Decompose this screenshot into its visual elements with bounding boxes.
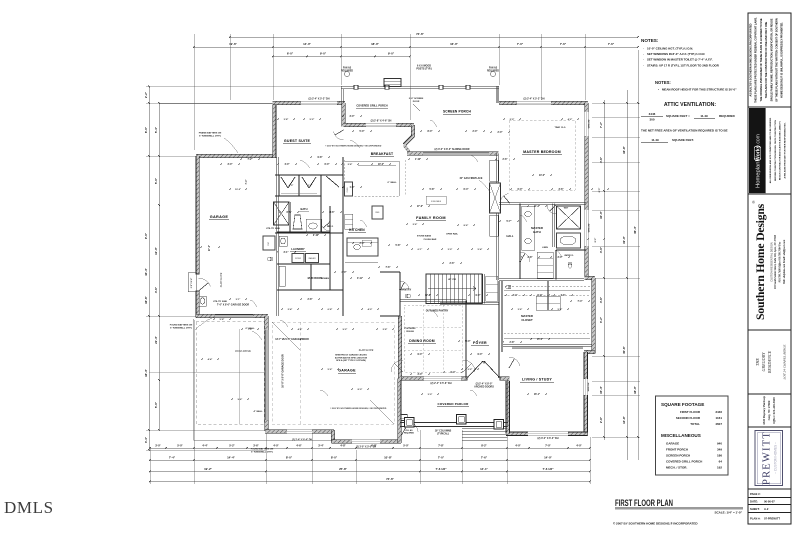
laundry	[277, 230, 330, 232]
svg-text:16'-8": 16'-8"	[622, 145, 626, 153]
svg-text:7'-4": 7'-4"	[245, 180, 248, 185]
roof above dashes	[196, 321, 264, 424]
svg-text:DMLS: DMLS	[4, 498, 54, 517]
svg-text:7'-2": 7'-2"	[248, 159, 253, 161]
wall: garage2 south lower + window	[332, 440, 402, 443]
leader arcs	[300, 160, 310, 168]
dimension lines left	[148, 87, 150, 451]
svg-text:7'-0": 7'-0"	[438, 455, 445, 459]
screen porch edge + posts	[341, 85, 499, 87]
svg-text:4'-2": 4'-2"	[568, 118, 573, 121]
svg-text:40" GAS FIREPLACE: 40" GAS FIREPLACE	[460, 177, 483, 180]
svg-text:REQUIRED: REQUIRED	[341, 70, 353, 72]
svg-text:3'-6": 3'-6"	[559, 189, 564, 191]
svg-text:2'-2": 2'-2"	[144, 91, 148, 98]
svg-text:HALL: HALL	[507, 234, 514, 238]
wall: grill porch south + window	[343, 123, 414, 126]
svg-text:KITCHEN: KITCHEN	[349, 228, 365, 232]
svg-text:COVERED GRILL PORCH: COVERED GRILL PORCH	[666, 460, 702, 464]
builders note rotated	[769, 117, 786, 183]
toilet compartment + linen	[554, 250, 556, 280]
svg-text:4'-0": 4'-0"	[576, 443, 582, 447]
svg-text:FAN AS: FAN AS	[343, 67, 352, 70]
svg-text:19'-6": 19'-6"	[229, 42, 237, 46]
svg-text:THE ORIGINAL PURCHASER OF THES: THE ORIGINAL PURCHASER OF THESE PLANS IS…	[760, 18, 763, 101]
svg-text:-: -	[643, 47, 644, 51]
master closet	[503, 344, 592, 346]
master bedroom	[509, 120, 575, 190]
svg-text:UP 17 R: UP 17 R	[448, 279, 457, 281]
svg-text:TRAY CLG: TRAY CLG	[555, 126, 566, 129]
svg-text:HOBBS: HOBBS	[321, 278, 329, 280]
svg-text:UTILITY SINK: UTILITY SINK	[266, 228, 280, 230]
svg-text:21'-4": 21'-4"	[154, 335, 158, 343]
svg-text:3'-0": 3'-0"	[418, 374, 423, 376]
svg-text:5'-0": 5'-0"	[154, 401, 158, 408]
svg-text:THE NET FREE AREA OF VENTILATI: THE NET FREE AREA OF VENTILATION REQUIRE…	[641, 129, 728, 133]
wall: garage south	[196, 314, 268, 317]
svg-text:6'-6": 6'-6"	[287, 212, 292, 214]
svg-text:(2) 2'-8" X 4'-6" SH: (2) 2'-8" X 4'-6" SH	[371, 120, 392, 123]
svg-text:9'-0": 9'-0"	[320, 52, 327, 56]
svg-text:7'-6": 7'-6"	[386, 267, 391, 269]
svg-text:6" KNEEWALL (TYP.): 6" KNEEWALL (TYP.)	[251, 450, 273, 453]
svg-text:SINGLE FAMILY HOME. REPRODUCTI: SINGLE FAMILY HOME. REPRODUCTION, MODIFI…	[770, 18, 773, 101]
svg-text:(2) 3'-0" X 5'-0" SH: (2) 3'-0" X 5'-0" SH	[356, 447, 376, 449]
svg-text:MASTER BEDROOM: MASTER BEDROOM	[523, 150, 561, 154]
svg-text:2'-8": 2'-8"	[599, 416, 603, 423]
svg-text:4'-4": 4'-4"	[202, 443, 208, 447]
svg-text:CLOSET: CLOSET	[521, 318, 533, 322]
svg-text:2'-6": 2'-6"	[450, 263, 455, 265]
svg-text:2'-4": 2'-4"	[288, 308, 293, 311]
svg-text:9'-8": 9'-8"	[318, 157, 323, 159]
svg-text:4'-6": 4'-6"	[296, 443, 302, 447]
svg-text:WET: WET	[564, 208, 569, 210]
powder	[406, 294, 411, 298]
svg-text:4'-6": 4'-6"	[154, 286, 158, 293]
svg-text:2'-6": 2'-6"	[503, 159, 508, 161]
svg-text:4'-4": 4'-4"	[208, 358, 213, 361]
guest suite partitions	[275, 173, 343, 175]
svg-text:THESE PLANS ARE PROTECTED UNDE: THESE PLANS ARE PROTECTED UNDER FEDERAL …	[755, 17, 758, 103]
svg-text:9'-6": 9'-6"	[238, 399, 243, 401]
svg-text:REQUIRED: REQUIRED	[487, 70, 499, 72]
svg-text:2'-6": 2'-6"	[413, 224, 418, 226]
svg-text:PANTRY: PANTRY	[401, 288, 412, 292]
svg-text:COVERED PARLOR: COVERED PARLOR	[438, 402, 470, 406]
svg-text:7'-0": 7'-0"	[517, 42, 524, 46]
svg-text:9'-0": 9'-0"	[388, 52, 395, 56]
svg-text:2'-8" X 6'-8": 2'-8" X 6'-8"	[191, 278, 193, 289]
svg-text:9'-0": 9'-0"	[144, 232, 148, 239]
wood steps at porch	[384, 79, 401, 87]
porch slab edge + columns	[400, 422, 508, 424]
svg-text:2'-0": 2'-0"	[473, 131, 478, 133]
svg-text:6'-4": 6'-4"	[464, 188, 469, 191]
svg-text:7'-4": 7'-4"	[169, 455, 176, 459]
svg-text:14'-0": 14'-0"	[303, 42, 311, 46]
svg-text:© 2007 BY SOUTHERN HOME DESIGN: © 2007 BY SOUTHERN HOME DESIGNS,® INCORP…	[613, 522, 698, 526]
family/master divider + fireplace	[496, 154, 498, 184]
svg-text:11.49: 11.49	[700, 114, 708, 118]
svg-text:FIRST FLOOR: FIRST FLOOR	[680, 410, 701, 414]
svg-text:BATH: BATH	[533, 230, 541, 234]
stairs	[426, 274, 482, 304]
svg-text:LIVING / STUDY: LIVING / STUDY	[522, 378, 552, 382]
svg-text:25'-8": 25'-8"	[339, 467, 347, 471]
svg-text:101 South Salem Street, Suite: 101 South Salem Street, Suite 101, Apex,…	[774, 234, 777, 289]
closet bifold doors	[281, 177, 288, 188]
svg-text:4'-0": 4'-0"	[368, 308, 373, 311]
svg-text:4'-6": 4'-6"	[330, 211, 335, 214]
svg-text:7'-4": 7'-4"	[578, 300, 583, 303]
svg-text:2'-10": 2'-10"	[313, 235, 319, 237]
svg-text:12'-0": 12'-0"	[154, 246, 158, 254]
svg-text:3'-0": 3'-0"	[155, 443, 161, 447]
svg-text:PLAN #:: PLAN #:	[750, 517, 761, 521]
svg-text:7'-6 1/2": 7'-6 1/2"	[542, 467, 554, 471]
mud room	[277, 288, 343, 290]
svg-text:FOUND BATTERS ON: FOUND BATTERS ON	[170, 324, 193, 327]
svg-text:STAIRS: UP 17 R (TYP.), 1ST F: STAIRS: UP 17 R (TYP.), 1ST FLOOR TO 2ND…	[647, 63, 720, 67]
HomeplanWorks logo band	[749, 108, 766, 193]
svg-text:5'-2": 5'-2"	[229, 443, 235, 447]
svg-text:SET WINDOW IN MASTER TOILET @: SET WINDOW IN MASTER TOILET @ 7'-4" A.F.…	[647, 58, 713, 62]
svg-text:7'-6 1/2": 7'-6 1/2"	[435, 467, 447, 471]
dimension lines right	[603, 100, 605, 440]
svg-text:14'-4": 14'-4"	[227, 455, 235, 459]
svg-text:8'-0": 8'-0"	[331, 455, 338, 459]
svg-text:1'-10": 1'-10"	[415, 159, 421, 161]
svg-text:74'-6": 74'-6"	[416, 32, 424, 36]
svg-text:COVERED GRILL PORCH: COVERED GRILL PORCH	[356, 104, 387, 108]
svg-text:DOOR: DOOR	[413, 101, 420, 103]
svg-text:2'-8": 2'-8"	[510, 342, 515, 344]
svg-text:7'-6": 7'-6"	[481, 455, 488, 459]
breakfast bay walls	[411, 125, 414, 137]
svg-text:4'-0": 4'-0"	[289, 184, 294, 187]
kitchen wall ovens + cabinets	[345, 182, 353, 196]
svg-text:3'-1": 3'-1"	[284, 252, 289, 254]
svg-text:16'-6": 16'-6"	[144, 295, 148, 303]
svg-text:7'-2": 7'-2"	[599, 121, 603, 128]
wall: guest suite north + window	[273, 101, 345, 104]
svg-text:8'-0": 8'-0"	[286, 455, 293, 459]
svg-text:(2) 2'-4" X 5'-6" DH: (2) 2'-4" X 5'-6" DH	[431, 382, 452, 385]
svg-text:GARAGE: GARAGE	[666, 442, 679, 446]
svg-text:5'-6": 5'-6"	[328, 369, 333, 371]
driveway slab outline	[193, 319, 195, 440]
wall: garage north	[196, 154, 276, 157]
svg-text:18'-0": 18'-0"	[633, 385, 637, 393]
svg-text:SLAB SLOPE: SLAB SLOPE	[220, 272, 223, 287]
svg-text:300: 300	[649, 118, 654, 122]
kitchen	[345, 261, 378, 263]
svg-text:2'-0": 2'-0"	[360, 243, 365, 245]
wall: closet step	[585, 276, 596, 279]
svg-text:NOTES:: NOTES:	[655, 80, 671, 85]
svg-text:8'-0": 8'-0"	[428, 131, 433, 133]
svg-text:FRONT PORCH: FRONT PORCH	[666, 448, 688, 452]
svg-text:TOTAL: TOTAL	[690, 422, 700, 426]
svg-text:10'-2": 10'-2"	[235, 189, 241, 191]
svg-text:15'-4": 15'-4"	[599, 385, 603, 393]
svg-text:SECOND FLOOR: SECOND FLOOR	[676, 416, 701, 420]
master bath cluster	[499, 202, 586, 204]
svg-text:WINDOW: WINDOW	[589, 120, 591, 129]
wall: guest suite west	[273, 103, 276, 158]
svg-text:192: 192	[717, 466, 722, 470]
svg-text:ALL DIMENSIONS AND SITE CONDIT: ALL DIMENSIONS AND SITE CONDITIONS ARE T…	[769, 117, 772, 183]
svg-text:00-00-07: 00-00-07	[764, 499, 775, 503]
svg-text:4'-0": 4'-0"	[599, 246, 603, 253]
svg-text:1161: 1161	[715, 416, 722, 420]
svg-text:REQUIRED: REQUIRED	[719, 114, 736, 118]
svg-text:17'-6": 17'-6"	[417, 206, 423, 208]
svg-text:7'-0": 7'-0"	[248, 329, 253, 331]
svg-text:DRYER: DRYER	[295, 258, 302, 260]
svg-text:7'-6": 7'-6"	[608, 42, 615, 46]
svg-text:Southern Home Designs: Southern Home Designs	[753, 203, 767, 320]
svg-text:10'-0" CEILING HGT. (TYP.) U.O: 10'-0" CEILING HGT. (TYP.) U.O.N.	[647, 47, 693, 51]
wall: study south + window	[506, 432, 587, 435]
svg-text:16'-0": 16'-0"	[450, 42, 458, 46]
svg-text:36'-4": 36'-4"	[633, 225, 637, 233]
svg-text:SQUARE FOOTAGE: SQUARE FOOTAGE	[661, 402, 704, 407]
svg-text:4'-6": 4'-6"	[298, 328, 303, 331]
dining room	[400, 299, 466, 301]
svg-text:CEILING: CEILING	[406, 331, 415, 333]
door swings misc	[199, 278, 211, 287]
svg-text:SQUARE FEET.: SQUARE FEET.	[672, 138, 694, 142]
svg-text:A-2: A-2	[764, 507, 769, 511]
svg-text:SQUARE FEET =: SQUARE FEET =	[666, 114, 690, 118]
gas notes	[344, 71, 349, 76]
svg-text:MISCELLANEOUS: MISCELLANEOUS	[661, 433, 701, 438]
svg-text:SCREEN PORCH: SCREEN PORCH	[443, 110, 472, 114]
svg-text:7'-6": 7'-6"	[560, 42, 567, 46]
wall: garage2 south step	[331, 430, 334, 443]
svg-text:POSTS (TYP.): POSTS (TYP.)	[416, 68, 432, 71]
svg-text:~ CUSTOM HOMES ~: ~ CUSTOM HOMES ~	[774, 442, 778, 474]
title block strip border	[748, 13, 791, 524]
svg-text:14'-1": 14'-1"	[480, 467, 488, 471]
svg-text:940: 940	[717, 442, 722, 446]
svg-text:2'-8": 2'-8"	[348, 164, 353, 166]
svg-text:4'-0": 4'-0"	[515, 443, 521, 447]
svg-text:-: -	[643, 58, 644, 62]
svg-text:74'-6": 74'-6"	[386, 477, 394, 481]
svg-text:GREGORY: GREGORY	[761, 352, 766, 372]
svg-text:FLUSH BAR: FLUSH BAR	[424, 238, 437, 241]
svg-text:6'-0": 6'-0"	[325, 164, 330, 166]
svg-text:UTILITY SINK: UTILITY SINK	[213, 301, 227, 303]
svg-text:6" KNEEWALL (TYP.): 6" KNEEWALL (TYP.)	[199, 134, 221, 137]
copyright paragraph rotated	[750, 17, 784, 103]
svg-text:6'-1": 6'-1"	[418, 249, 423, 251]
svg-text:2'-8": 2'-8"	[528, 257, 533, 259]
svg-text:5'-0": 5'-0"	[403, 443, 409, 447]
svg-text:6'-0": 6'-0"	[518, 189, 523, 191]
svg-text:16'-0" X 8'-0" GARAGE DOOR: 16'-0" X 8'-0" GARAGE DOOR	[282, 354, 285, 388]
sheet data table	[748, 497, 791, 499]
wall: garage2 south upper + window	[265, 430, 334, 433]
svg-text:9'-0": 9'-0"	[478, 354, 483, 356]
svg-text:Web: shdplans.com Email:: Web: shdplans.com Email: shd@ps.rr.com	[783, 240, 786, 284]
svg-text:8'-0": 8'-0"	[358, 389, 363, 391]
svg-text:2'-6": 2'-6"	[308, 185, 313, 187]
svg-text:Cary, NC 27866: Cary, NC 27866	[767, 400, 771, 420]
master closet rods/shelves	[504, 289, 590, 291]
svg-text:18'-0": 18'-0"	[371, 42, 379, 46]
project name rotated	[755, 350, 772, 374]
svg-text:BEFORE CONSTRUCTION BEGINS. ON: BEFORE CONSTRUCTION BEGINS. ONCE CONSTRU…	[775, 120, 777, 181]
porch steps	[462, 428, 508, 430]
wall: master east	[585, 103, 588, 280]
svg-text:SOFA TABLE: SOFA TABLE	[431, 200, 442, 203]
svg-text:10'-0": 10'-0"	[599, 210, 603, 218]
wall: foyer/porch south + front door	[400, 377, 509, 380]
svg-text:LOT 24 CHAPEL RIDGE: LOT 24 CHAPEL RIDGE	[783, 344, 787, 381]
svg-text:9'-0": 9'-0"	[476, 295, 481, 297]
svg-text:FILL AS: FILL AS	[405, 429, 413, 432]
svg-text:FOUND BATTERS ON: FOUND BATTERS ON	[251, 448, 274, 451]
svg-text:2'-2": 2'-2"	[468, 369, 473, 371]
wall: study west	[506, 381, 509, 434]
svg-text:3'-0": 3'-0"	[350, 116, 355, 118]
svg-text:BEGUN CONTRACTOR AND CLIENTS A: BEGUN CONTRACTOR AND CLIENTS ASSUME LIAB…	[779, 120, 782, 180]
svg-text:4'-8": 4'-8"	[340, 443, 346, 447]
svg-text:3'-6": 3'-6"	[518, 309, 523, 311]
svg-text:4'-6": 4'-6"	[561, 294, 566, 297]
svg-text:3446: 3446	[649, 112, 656, 116]
svg-text:BATH: BATH	[300, 207, 307, 211]
svg-text:5'-0": 5'-0"	[154, 177, 158, 184]
wall: closet east	[592, 278, 595, 354]
svg-text:(2) 2'-4" X 5'-2" DH: (2) 2'-4" X 5'-2" DH	[309, 97, 330, 100]
svg-text:WINDOW: WINDOW	[588, 383, 590, 392]
svg-text:5'-8": 5'-8"	[396, 245, 401, 247]
svg-text:FAN AS: FAN AS	[489, 67, 498, 70]
svg-text:ROOF ABOVE: ROOF ABOVE	[235, 350, 251, 353]
hall/kitchen west wall	[328, 206, 330, 290]
Southern Home Designs logo rotated	[751, 200, 767, 320]
svg-text:SLAB SLOPE: SLAB SLOPE	[359, 349, 374, 352]
svg-text:LINEN: LINEN	[542, 247, 548, 249]
svg-text:3'-4": 3'-4"	[513, 294, 518, 297]
pantry	[398, 272, 400, 316]
svg-text:DATE:: DATE:	[750, 499, 758, 503]
garage2 interior slab dashes	[272, 322, 394, 424]
svg-text:5'-8": 5'-8"	[430, 189, 435, 191]
svg-text:15'-0": 15'-0"	[537, 339, 543, 341]
svg-text:3'-2": 3'-2"	[599, 316, 603, 323]
svg-text:HALL: HALL	[327, 225, 334, 228]
guest bath fixtures	[274, 202, 290, 225]
roof/eave outline top left	[159, 103, 273, 105]
svg-text:THE: THE	[755, 358, 760, 366]
svg-text:19'-2": 19'-2"	[204, 467, 212, 471]
Prewitt Custom Homes logo	[755, 431, 783, 486]
svg-text:11.49: 11.49	[651, 138, 659, 142]
svg-text:2'-8": 2'-8"	[383, 329, 388, 331]
foyer walls	[497, 281, 499, 378]
svg-text:®: ®	[751, 200, 756, 203]
svg-text:PAGE #:: PAGE #:	[750, 492, 761, 496]
svg-text:14'-0": 14'-0"	[539, 174, 545, 177]
svg-text:3'-0": 3'-0"	[558, 257, 563, 259]
svg-text:7'-8": 7'-8"	[438, 443, 444, 447]
svg-text:BREAKFAST: BREAKFAST	[371, 152, 394, 156]
svg-text:2'-8" SCREEN: 2'-8" SCREEN	[409, 98, 424, 100]
svg-text:WINDOW: WINDOW	[589, 224, 591, 233]
svg-text:-: -	[643, 63, 644, 67]
svg-text:(2) 2'-4" X 5'-2" DH: (2) 2'-4" X 5'-2" DH	[524, 97, 545, 100]
svg-text:3500 Regency Parkway: 3500 Regency Parkway	[762, 395, 766, 425]
svg-text:Works: Works	[755, 145, 761, 161]
wall: guest suite east upper	[342, 103, 345, 127]
svg-text:9'-2": 9'-2"	[343, 329, 348, 331]
wall: garage2 east lower	[398, 379, 401, 444]
svg-text:Homeplan: Homeplan	[756, 162, 762, 188]
wall: garage2/dining west	[398, 316, 401, 379]
svg-text:3'-6": 3'-6"	[253, 443, 259, 447]
svg-text:RESIDENCE: RESIDENCE	[767, 350, 772, 374]
svg-text:DINING ROOM: DINING ROOM	[409, 339, 435, 343]
freezer + powder	[263, 236, 275, 250]
svg-text:4" WALL: 4" WALL	[253, 410, 263, 413]
svg-text:3'-0": 3'-0"	[228, 164, 233, 166]
svg-text:10'-8": 10'-8"	[384, 455, 392, 459]
svg-text:12'-8": 12'-8"	[425, 295, 431, 297]
svg-text:.com: .com	[756, 134, 762, 145]
kitchen upper cabinets dashed	[343, 160, 345, 196]
svg-text:6" WALL: 6" WALL	[387, 181, 397, 184]
svg-text:REQUIRED: REQUIRED	[404, 433, 415, 435]
svg-text:5'-8": 5'-8"	[220, 319, 225, 321]
svg-text:ARCHED DOORS: ARCHED DOORS	[474, 385, 494, 388]
square footage table	[656, 396, 729, 475]
svg-text:8'-2": 8'-2"	[481, 443, 487, 447]
svg-text:SCALE: 1/4" = 1'-0": SCALE: 1/4" = 1'-0"	[715, 511, 743, 515]
wall: garage west + door	[196, 156, 199, 318]
svg-text:3446: 3446	[715, 410, 722, 414]
svg-text:349: 349	[717, 448, 722, 452]
svg-text:7'-0": 7'-0"	[545, 443, 551, 447]
dimension lines top	[230, 36, 638, 38]
svg-text:16'-1": 16'-1"	[534, 394, 540, 396]
svg-text:11'-2": 11'-2"	[534, 206, 540, 208]
svg-text:18'-4": 18'-4"	[144, 368, 148, 376]
svg-text:(2) 3'-0" X 8'-0" SLIDING DOOR: (2) 3'-0" X 8'-0" SLIDING DOOR	[434, 148, 469, 151]
svg-text:GUEST SUITE: GUEST SUITE	[284, 139, 311, 143]
dimension lines bottom	[150, 447, 590, 449]
svg-text:5'-2": 5'-2"	[310, 119, 315, 121]
svg-text:•: •	[658, 88, 659, 92]
svg-text:THE PLANS FOR THE CONSTRUCTION: THE PLANS FOR THE CONSTRUCTION OF ONE AN…	[765, 21, 768, 98]
svg-text:2'-8": 2'-8"	[308, 299, 313, 301]
svg-text:3'-0": 3'-0"	[428, 394, 433, 396]
svg-text:6'-0": 6'-0"	[599, 188, 601, 193]
svg-text:4607: 4607	[715, 422, 722, 426]
svg-text:30'-6": 30'-6"	[622, 345, 626, 353]
svg-text:5'-4": 5'-4"	[154, 126, 158, 133]
svg-text:14'-8": 14'-8"	[622, 415, 626, 423]
svg-text:MEAN ROOF HEIGHT FOR THIS STRU: MEAN ROOF HEIGHT FOR THIS STRUCTURE IS 3…	[662, 88, 737, 92]
svg-text:2'-0": 2'-0"	[510, 119, 515, 121]
svg-text:3'-0": 3'-0"	[342, 272, 347, 274]
